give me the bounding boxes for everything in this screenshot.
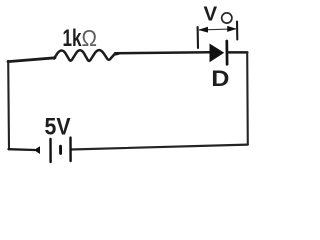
wire diode anode	[115, 52, 210, 53]
svg-text:V: V	[204, 3, 218, 26]
svg-text:1k: 1k	[63, 25, 82, 52]
diode D cathode bar	[225, 41, 228, 64]
diode D triangle	[210, 44, 225, 63]
svg-text:D: D	[211, 66, 229, 91]
wire left vertical	[7, 61, 10, 150]
wire right vertical	[246, 53, 249, 145]
wire bottom-right	[71, 145, 248, 150]
svg-text:5V: 5V	[45, 114, 71, 141]
battery B1 plate short	[59, 146, 62, 153]
svg-text:Ω: Ω	[82, 25, 98, 51]
measurement arrow line	[199, 29, 236, 30]
battery B1 plate long 2	[69, 138, 71, 161]
wire top-left horizontal	[8, 58, 55, 62]
wire bottom-left	[9, 148, 35, 151]
wire diode cathode to corner	[228, 51, 247, 54]
measurement arrowhead left	[198, 27, 208, 33]
measurement tick right	[236, 22, 238, 40]
measurement arrowhead right	[227, 26, 237, 32]
label V subscript circle	[222, 13, 232, 23]
resistor R 1k ohm zigzag	[54, 50, 118, 61]
battery B1 plate long 1	[49, 139, 51, 162]
measurement tick left	[197, 27, 199, 48]
battery B1 wedge contact	[34, 146, 40, 154]
